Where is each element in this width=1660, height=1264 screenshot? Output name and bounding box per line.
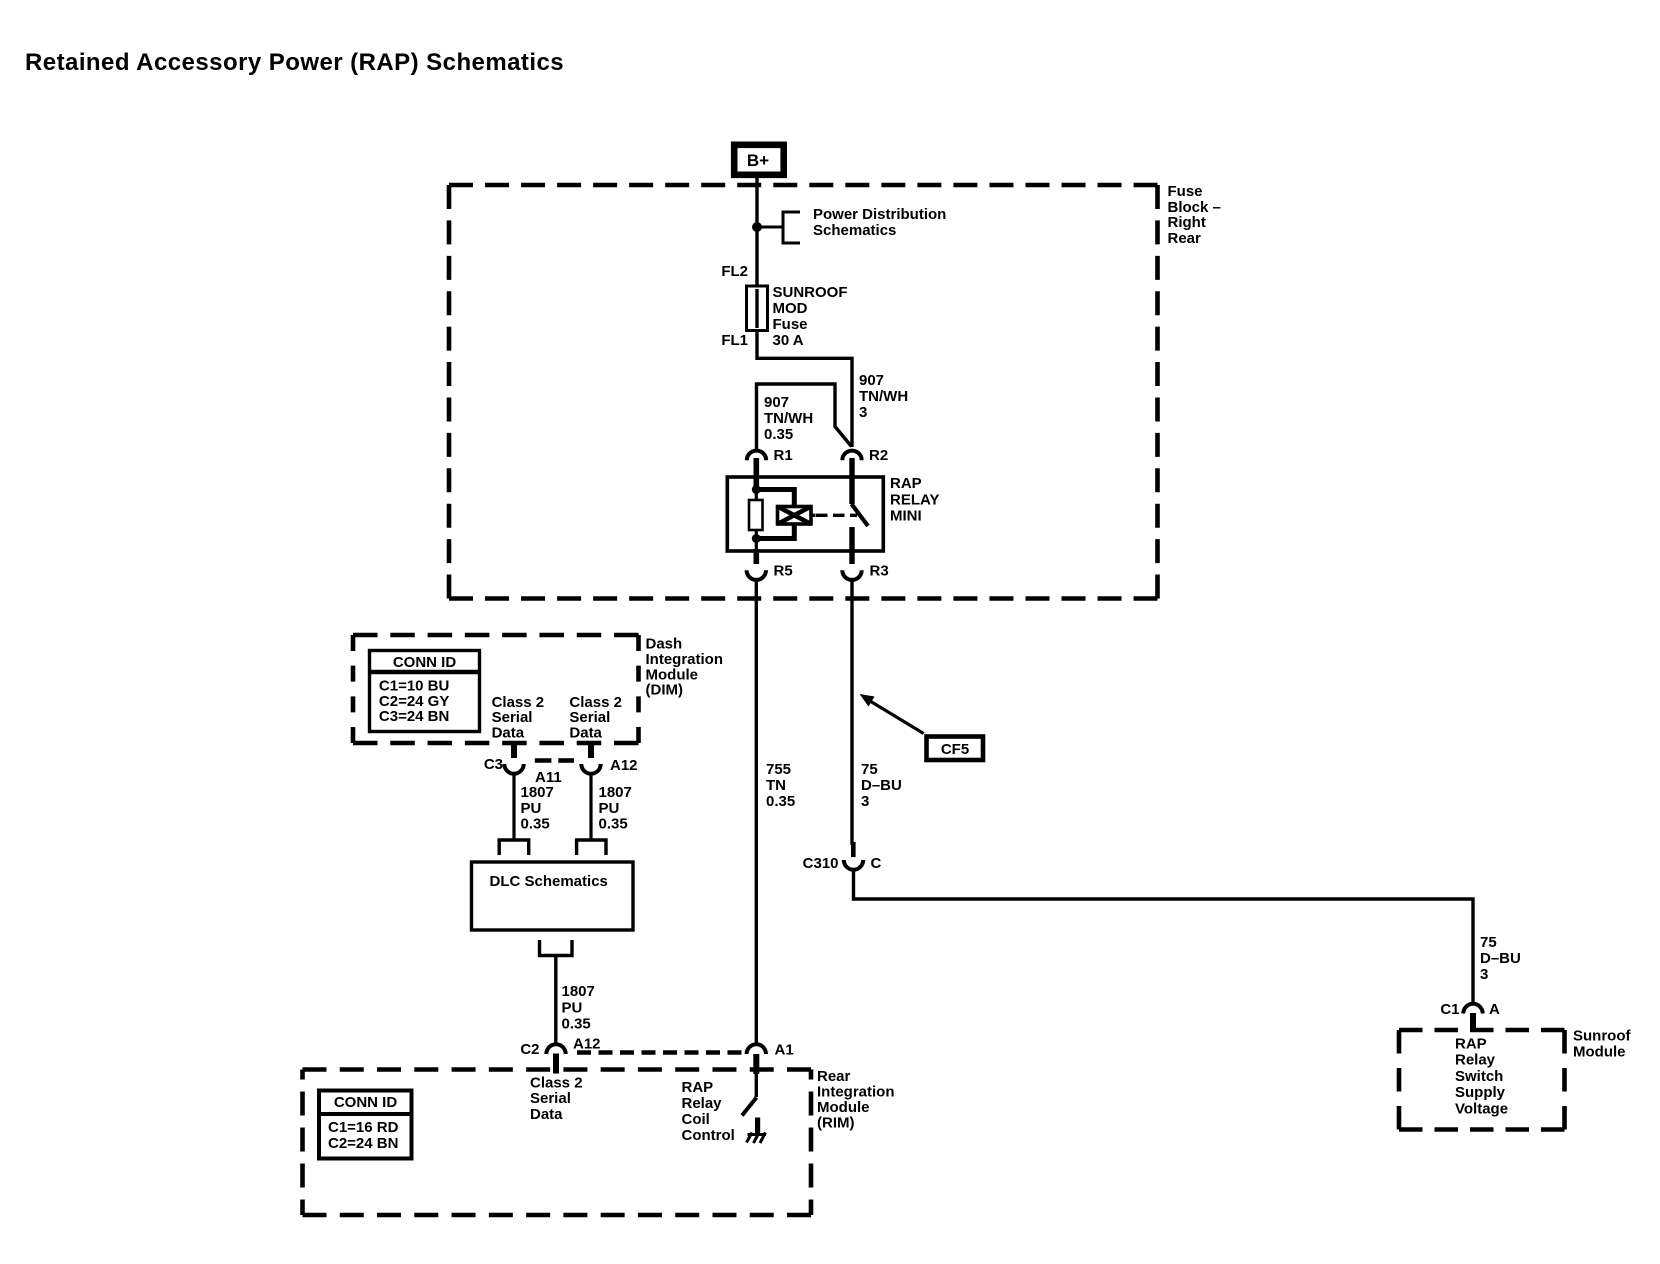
wire 755 TN from R5 to A1 xyxy=(755,580,758,1043)
svg-text:1807: 1807 xyxy=(562,983,595,1000)
connector R2 xyxy=(842,447,888,504)
svg-text:Rear: Rear xyxy=(1168,230,1202,247)
node bottom junction in relay xyxy=(752,534,761,543)
svg-text:C1=10 BU: C1=10 BU xyxy=(379,678,449,695)
connector R3 xyxy=(842,549,888,580)
svg-text:C1: C1 xyxy=(1440,1001,1459,1018)
svg-text:Coil: Coil xyxy=(682,1111,710,1128)
sunroof module label xyxy=(1573,1028,1631,1061)
svg-text:Fuse: Fuse xyxy=(1168,183,1203,200)
svg-text:907: 907 xyxy=(859,372,884,389)
relay label xyxy=(890,475,939,525)
svg-text:75: 75 xyxy=(861,761,878,778)
wire label 1807 PU 0.35 (bottom) xyxy=(562,983,595,1032)
wire label 907 TN/WH 0.35 xyxy=(764,394,813,443)
svg-text:C3: C3 xyxy=(484,756,503,773)
svg-text:3: 3 xyxy=(1480,966,1488,983)
svg-text:PU: PU xyxy=(599,800,620,817)
dashed connector tie C3-A12 xyxy=(535,758,574,763)
svg-text:MINI: MINI xyxy=(890,508,922,525)
connector A1 xyxy=(747,1042,794,1075)
svg-text:Retained Accessory Power (RAP): Retained Accessory Power (RAP) Schematic… xyxy=(25,49,564,76)
svg-text:A: A xyxy=(1489,1001,1500,1018)
svg-text:Schematics: Schematics xyxy=(813,222,896,239)
svg-text:TN/WH: TN/WH xyxy=(859,388,908,405)
svg-text:RAP: RAP xyxy=(890,475,922,492)
svg-text:1807: 1807 xyxy=(521,784,554,801)
wire 907 TN/WH 0.35 branch to R1 xyxy=(757,384,852,449)
svg-text:TN/WH: TN/WH xyxy=(764,410,813,427)
relay U1 RAP RELAY MINI box xyxy=(727,477,883,551)
svg-text:R3: R3 xyxy=(870,563,889,580)
svg-text:TN: TN xyxy=(766,777,786,794)
svg-text:RAP: RAP xyxy=(1455,1036,1487,1053)
svg-text:C2: C2 xyxy=(520,1041,539,1058)
svg-text:RAP: RAP xyxy=(682,1079,714,1096)
RAP relay coil control switch xyxy=(742,1074,757,1116)
svg-text:Relay: Relay xyxy=(1455,1052,1496,1069)
wire 1807 PU 0.35 (A12 to DLC) xyxy=(589,773,592,841)
fuse block box (Fuse Block - Right Rear) xyxy=(449,185,1158,599)
relay resistor xyxy=(749,486,763,551)
svg-text:CONN ID: CONN ID xyxy=(334,1094,398,1111)
wire label 75 D-BU 3 (right) xyxy=(1480,934,1521,983)
svg-text:A1: A1 xyxy=(775,1042,794,1059)
connector A12 (DIM) xyxy=(581,742,637,774)
sunroof module box xyxy=(1399,1030,1565,1130)
svg-text:R5: R5 xyxy=(774,563,793,580)
svg-text:C310: C310 xyxy=(803,855,839,872)
DLC schematics box xyxy=(472,862,634,930)
DIM module box (Dash Integration Module) xyxy=(353,635,639,743)
wire label 755 TN 0.35 xyxy=(766,761,795,810)
svg-text:PU: PU xyxy=(562,999,583,1016)
svg-text:Voltage: Voltage xyxy=(1455,1100,1508,1117)
svg-text:CF5: CF5 xyxy=(941,741,969,758)
svg-text:FL1: FL1 xyxy=(721,332,748,349)
svg-text:Data: Data xyxy=(569,725,602,742)
relay coil xyxy=(756,490,815,539)
svg-text:(DIM): (DIM) xyxy=(646,682,684,699)
svg-text:FL2: FL2 xyxy=(721,263,748,280)
svg-text:3: 3 xyxy=(861,793,869,810)
svg-text:A12: A12 xyxy=(610,757,638,774)
wire B+ to fuse FL2 xyxy=(755,178,758,287)
svg-text:0.35: 0.35 xyxy=(599,815,628,832)
wire label 75 D-BU 3 xyxy=(861,761,902,810)
ground xyxy=(747,1118,767,1144)
svg-text:(RIM): (RIM) xyxy=(817,1115,855,1132)
connector C3 xyxy=(484,742,524,774)
svg-text:Dash: Dash xyxy=(646,636,683,653)
connector C1 pin A xyxy=(1440,1001,1500,1031)
svg-text:B+: B+ xyxy=(747,151,769,170)
svg-text:C1=16 RD: C1=16 RD xyxy=(328,1119,399,1136)
svg-text:CONN ID: CONN ID xyxy=(393,654,457,671)
svg-text:Power Distribution: Power Distribution xyxy=(813,206,946,223)
battery feed B+ xyxy=(734,145,784,175)
wire 75 D-BU from C310 to C1 xyxy=(854,871,1474,1003)
fuse FL2/FL1 SUNROOF MOD Fuse 30 A xyxy=(721,263,847,349)
callout CF5 with arrow xyxy=(860,694,984,760)
svg-text:C3=24 BN: C3=24 BN xyxy=(379,708,449,725)
svg-text:SUNROOF: SUNROOF xyxy=(773,284,848,301)
svg-text:Data: Data xyxy=(492,725,525,742)
RAP relay coil control label xyxy=(682,1079,735,1144)
svg-text:MOD: MOD xyxy=(773,300,808,317)
svg-text:0.35: 0.35 xyxy=(562,1015,591,1032)
svg-text:755: 755 xyxy=(766,761,791,778)
svg-text:R1: R1 xyxy=(774,447,793,464)
svg-text:D–BU: D–BU xyxy=(1480,950,1521,967)
wire label 907 TN/WH 3 xyxy=(859,372,908,421)
wire 907 TN/WH 3 from fuse to R2 xyxy=(757,330,852,447)
svg-text:Integration: Integration xyxy=(817,1084,895,1101)
svg-text:Switch: Switch xyxy=(1455,1068,1503,1085)
relay actuator dashed link xyxy=(816,514,857,517)
svg-text:Control: Control xyxy=(682,1127,735,1144)
svg-text:Sunroof: Sunroof xyxy=(1573,1028,1631,1045)
wire label 1807 PU 0.35 (left) xyxy=(521,784,554,832)
wire label 1807 PU 0.35 (right) xyxy=(599,784,632,832)
wire 75 D-BU from R3 to C310 xyxy=(850,580,853,845)
class 2 serial data label (right) xyxy=(569,694,622,742)
class 2 serial data label (left) xyxy=(492,694,545,742)
node top junction in relay xyxy=(752,485,761,494)
svg-text:Supply: Supply xyxy=(1455,1084,1506,1101)
svg-text:0.35: 0.35 xyxy=(766,793,795,810)
connector R1 xyxy=(747,447,793,486)
svg-text:1807: 1807 xyxy=(599,784,632,801)
connector C2 pin A12 xyxy=(520,1036,600,1074)
class 2 serial data label (RIM) xyxy=(530,1075,583,1124)
RIM label xyxy=(817,1068,895,1132)
DLC input bracket (right) xyxy=(577,840,606,855)
svg-text:A12: A12 xyxy=(573,1036,601,1053)
svg-text:C2=24 BN: C2=24 BN xyxy=(328,1135,398,1152)
svg-text:Data: Data xyxy=(530,1106,563,1123)
node junction at power distribution tap xyxy=(752,222,762,232)
wire 1807 PU 0.35 (C3 to DLC) xyxy=(512,773,515,841)
svg-text:Rear: Rear xyxy=(817,1068,851,1085)
svg-text:30 A: 30 A xyxy=(773,332,804,349)
CONN ID table (RIM) xyxy=(319,1091,412,1159)
svg-text:3: 3 xyxy=(859,404,867,421)
connector R5 xyxy=(747,549,793,580)
svg-text:RELAY: RELAY xyxy=(890,491,939,508)
power distribution label xyxy=(813,206,946,239)
svg-text:Relay: Relay xyxy=(682,1095,723,1112)
DLC input bracket (left) xyxy=(499,840,529,855)
svg-text:PU: PU xyxy=(521,800,542,817)
svg-text:75: 75 xyxy=(1480,934,1497,951)
svg-text:Serial: Serial xyxy=(530,1090,571,1107)
connector C310 pin C xyxy=(803,842,882,872)
DLC output bracket xyxy=(540,940,573,956)
RIM module box (Rear Integration Module) xyxy=(303,1070,812,1216)
svg-text:Right: Right xyxy=(1168,214,1206,231)
svg-text:D–BU: D–BU xyxy=(861,777,902,794)
power distribution schematics tap symbol xyxy=(757,211,800,245)
svg-text:DLC Schematics: DLC Schematics xyxy=(490,873,608,890)
svg-text:0.35: 0.35 xyxy=(764,426,793,443)
svg-text:0.35: 0.35 xyxy=(521,815,550,832)
svg-text:C: C xyxy=(871,855,882,872)
CONN ID table (DIM) xyxy=(370,651,480,732)
DIM label xyxy=(646,636,724,699)
svg-text:R2: R2 xyxy=(869,447,888,464)
svg-text:907: 907 xyxy=(764,394,789,411)
svg-text:Module: Module xyxy=(1573,1044,1626,1061)
relay switch fixed contact xyxy=(849,527,854,551)
relay switch blade xyxy=(852,504,869,526)
svg-text:Fuse: Fuse xyxy=(773,316,808,333)
svg-text:Class 2: Class 2 xyxy=(530,1075,583,1092)
dashed connector tie C2-A1 xyxy=(577,1050,747,1055)
RAP relay switch supply voltage label xyxy=(1455,1036,1508,1118)
wire 1807 PU 0.35 (DLC to C2) xyxy=(554,955,557,1043)
fuse block label xyxy=(1168,183,1221,247)
svg-text:Module: Module xyxy=(817,1099,870,1116)
